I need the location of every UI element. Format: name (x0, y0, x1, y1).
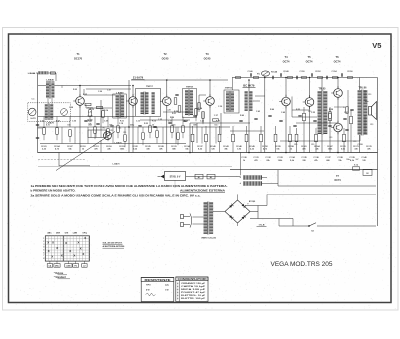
svg-text:R.143: R.143 (223, 145, 229, 148)
svg-text:R.1: R.1 (344, 107, 347, 109)
svg-text:OC170: OC170 (74, 57, 83, 61)
svg-text:X: X (52, 240, 54, 244)
svg-text:1: 1 (43, 238, 44, 240)
svg-text:X: X (77, 240, 79, 244)
svg-text:X: X (73, 253, 75, 257)
svg-text:C.07: C.07 (107, 90, 111, 92)
svg-text:R.40: R.40 (240, 114, 244, 117)
svg-text:Q.A.: Q.A. (165, 283, 170, 286)
svg-text:R.1: R.1 (330, 137, 333, 139)
svg-text:C.09: C.09 (104, 121, 108, 123)
svg-text:LMN: LMN (73, 232, 78, 234)
svg-text:B2: B2 (210, 177, 212, 179)
svg-text:b PREMERE UN MODO ADATTO.: b PREMERE UN MODO ADATTO. (31, 190, 76, 193)
svg-text:▮: ▮ (177, 282, 178, 285)
svg-text:OC74: OC74 (283, 60, 290, 64)
svg-text:RESISTENZE: RESISTENZE (145, 279, 172, 282)
svg-text:R.36: R.36 (170, 117, 174, 119)
svg-text:C.140: C.140 (361, 156, 367, 159)
svg-text:C.150: C.150 (299, 71, 304, 73)
svg-text:TIPO: TIPO (146, 284, 151, 286)
svg-text:C.17: C.17 (168, 121, 172, 123)
svg-text:SUL AV.GB SPOST.: SUL AV.GB SPOST. (103, 242, 123, 245)
svg-text:5: 5 (43, 250, 44, 252)
svg-text:C.06: C.06 (98, 91, 102, 93)
svg-text:R.46: R.46 (270, 108, 274, 111)
svg-text:R.134: R.134 (184, 145, 190, 148)
svg-text:R.11: R.11 (120, 121, 124, 123)
svg-text:C.28: C.28 (167, 110, 171, 112)
svg-text:7: 7 (43, 255, 44, 257)
svg-text:R.1: R.1 (312, 144, 315, 146)
svg-text:LMB: LMB (66, 265, 71, 267)
svg-text:R.02: R.02 (73, 89, 77, 91)
svg-text:C.12: C.12 (90, 109, 94, 111)
svg-text:C.02: C.02 (40, 121, 44, 123)
svg-text:▮: ▮ (177, 291, 178, 294)
svg-text:R.164: R.164 (314, 145, 320, 148)
svg-text:R.156: R.156 (347, 71, 352, 73)
svg-text:R.1: R.1 (119, 128, 122, 130)
svg-text:1a PREMERE NEI SEGUENTI DUE TA: 1a PREMERE NEI SEGUENTI DUE TASTI DI B10… (31, 185, 228, 188)
svg-text:ABC: ABC (47, 231, 52, 234)
svg-text:R.149: R.149 (249, 145, 255, 148)
svg-text:TRU.06: TRU.06 (359, 88, 368, 90)
svg-text:OC74: OC74 (334, 179, 341, 182)
svg-text:▮: ▮ (177, 297, 178, 300)
svg-text:OPQ: OPQ (82, 232, 87, 234)
svg-text:X: X (56, 246, 58, 250)
svg-text:C.25: C.25 (158, 119, 162, 121)
svg-text:CARTA 10 kpF: CARTA 10 kpF (181, 285, 207, 288)
svg-text:R.05: R.05 (83, 94, 87, 96)
svg-text:X: X (82, 252, 84, 256)
svg-text:2x270: 2x270 (30, 118, 35, 120)
svg-text:R.22: R.22 (144, 123, 148, 125)
svg-text:L.BA79: L.BA79 (114, 142, 122, 145)
svg-text:L.BA45: L.BA45 (46, 79, 54, 82)
svg-text:R.23: R.23 (216, 121, 220, 123)
svg-text:100: 100 (67, 124, 70, 126)
svg-text:V5: V5 (372, 41, 381, 50)
svg-text:4: 4 (43, 246, 44, 249)
svg-text:C.134: C.134 (289, 156, 295, 159)
svg-text:OC45: OC45 (162, 57, 169, 61)
svg-text:ELETTROL. 10 µF: ELETTROL. 10 µF (181, 295, 206, 297)
svg-text:C.43: C.43 (256, 110, 260, 113)
svg-text:B1: B1 (198, 177, 200, 179)
svg-text:R.58: R.58 (329, 109, 333, 111)
svg-text:VEGA MOD.TRS 205: VEGA MOD.TRS 205 (271, 261, 333, 268)
svg-text:X: X (51, 255, 53, 259)
svg-text:ELETTR. 100 µF: ELETTR. 100 µF (181, 298, 206, 300)
svg-text:MICA 100 pF: MICA 100 pF (181, 288, 207, 291)
svg-text:▮: ▮ (177, 294, 178, 297)
svg-text:BY100: BY100 (249, 201, 256, 203)
svg-text:X: X (69, 249, 71, 253)
svg-text:C.146: C.146 (247, 70, 252, 73)
svg-text:R.1: R.1 (295, 144, 298, 146)
svg-text:TNF17: TNF17 (146, 86, 153, 88)
svg-text:2a SERVIRE SOLO A MODO USANDO: 2a SERVIRE SOLO A MODO USANDO COME SCALA… (31, 195, 201, 198)
svg-text:21 0A79: 21 0A79 (133, 76, 144, 80)
svg-text:C.13: C.13 (136, 121, 140, 123)
svg-text:R.15: R.15 (152, 121, 156, 123)
svg-text:R.104: R.104 (54, 145, 60, 148)
svg-text:R.1: R.1 (371, 124, 374, 126)
svg-text:X: X (65, 241, 67, 245)
svg-text:X: X (84, 236, 86, 240)
svg-text:R.1: R.1 (103, 128, 106, 130)
svg-text:L.BA79: L.BA79 (113, 163, 121, 166)
svg-text:C.49: C.49 (281, 111, 285, 114)
svg-text:X: X (80, 247, 82, 251)
svg-text:R.144: R.144 (271, 70, 278, 73)
svg-text:X: X (61, 253, 63, 257)
svg-text:CONDENSATORI: CONDENSATORI (178, 278, 208, 281)
svg-text:BC 0K79: BC 0K79 (243, 84, 255, 88)
svg-text:2: 2 (43, 241, 44, 243)
svg-text:OC74: OC74 (334, 60, 341, 64)
svg-text:8: 8 (43, 258, 44, 260)
svg-text:R.28: R.28 (174, 111, 178, 113)
svg-text:R.152: R.152 (315, 71, 320, 73)
svg-text:* Deluxe: * Deluxe (54, 272, 64, 275)
svg-text:X: X (47, 240, 49, 244)
svg-text:2n2: 2n2 (88, 124, 91, 126)
svg-text:R.31: R.31 (172, 113, 176, 115)
svg-text:DNC: DNC (55, 265, 60, 267)
svg-text:C.18: C.18 (119, 123, 123, 125)
svg-text:R.06: R.06 (88, 121, 92, 123)
svg-text:R.1: R.1 (354, 141, 357, 143)
svg-text:STAB. 9 V: STAB. 9 V (170, 176, 181, 179)
svg-text:R.146: R.146 (236, 145, 242, 148)
svg-text:* Standard: * Standard (54, 276, 66, 279)
svg-text:C.05: C.05 (72, 121, 76, 123)
svg-text:X: X (48, 249, 50, 253)
svg-text:OC45: OC45 (204, 57, 211, 61)
svg-text:C.21: C.21 (200, 121, 204, 123)
svg-text:4 W: 4 W (146, 289, 150, 292)
svg-text:TNF19: TNF19 (225, 88, 232, 90)
svg-text:C.31: C.31 (186, 112, 190, 114)
svg-text:R.1: R.1 (309, 111, 312, 113)
svg-text:▮: ▮ (177, 285, 178, 288)
svg-text:R.148: R.148 (283, 70, 288, 73)
svg-text:680: 680 (193, 124, 196, 126)
svg-text:6: 6 (43, 252, 44, 254)
svg-text:A BATTERIA INTERN.: A BATTERIA INTERN. (103, 245, 126, 248)
svg-text:R.1: R.1 (369, 94, 372, 96)
svg-text:TRI.05: TRI.05 (319, 89, 327, 91)
svg-text:R.19: R.19 (184, 121, 188, 123)
svg-text:C.158: C.158 (357, 144, 362, 146)
svg-text:C.37: C.37 (214, 115, 218, 117)
svg-text:R.52: R.52 (296, 109, 300, 111)
svg-text:GHI: GHI (65, 232, 69, 234)
svg-text:POLIEST. 47 kpF: POLIEST. 47 kpF (181, 291, 206, 294)
svg-text:17a-B: 17a-B (259, 225, 265, 227)
svg-text:OC74: OC74 (306, 60, 313, 64)
svg-text:C.61: C.61 (344, 112, 348, 114)
svg-text:▮: ▮ (177, 288, 178, 291)
